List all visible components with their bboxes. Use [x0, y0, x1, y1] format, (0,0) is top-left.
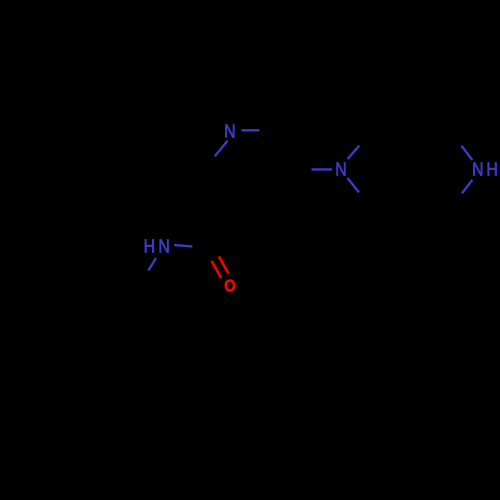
wire: amine N2 down-right half-bond: [348, 178, 360, 192]
wire: piperidine NH up-left half-bond: [462, 146, 473, 160]
wire: amine N2 up-right half-bond: [348, 146, 360, 159]
wire: amide HN to carbonyl C right half-bond: [174, 245, 192, 246]
svg-text:O: O: [224, 277, 236, 296]
wire: pyridine N1 to C6 right half-bond: [242, 129, 260, 131]
wire: amine N2 to CH2 left half-bond: [312, 168, 333, 170]
wire: C=O double bond outer line: [219, 256, 229, 273]
svg-text:H: H: [144, 235, 156, 256]
svg-text:N: N: [158, 235, 170, 256]
svg-text:N: N: [472, 158, 484, 179]
svg-text:N: N: [224, 121, 236, 142]
wire: pyridine N1 to C2 down-left half-bond: [215, 141, 228, 157]
wire: C=O double bond inner line: [212, 261, 222, 278]
svg-text:N: N: [335, 159, 347, 180]
wire: piperidine NH down-left half-bond: [462, 180, 472, 194]
svg-text:H: H: [486, 158, 498, 179]
wire: amide HN to benzyl CH2 down-left half-bond: [148, 258, 156, 271]
